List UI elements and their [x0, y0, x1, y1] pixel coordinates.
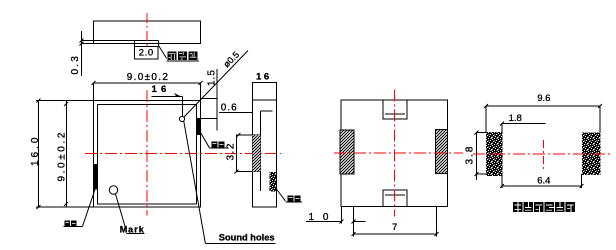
chinese label pad right (2 glyph blocks): [212, 142, 225, 148]
hole center extension line: [201, 118, 218, 120]
dimension 9.0 top extension right: [200, 83, 202, 101]
dimension 0.3 extension line: [81, 43, 94, 45]
hole offset label drop line: [182, 97, 184, 117]
view2 inner square: [98, 105, 197, 205]
dimension 0.3 tick bottom: [80, 42, 84, 46]
leader to view3 pad label: [276, 189, 285, 201]
view3 inner wall line: [260, 111, 262, 191]
view4 bottom square: [341, 100, 448, 207]
view1 package side outline: [94, 21, 201, 44]
dimension 9.0 left line: [66, 101, 68, 208]
view2 red vertical centerline: [146, 90, 148, 216]
view4 bottom notch inner line: [385, 194, 405, 196]
view4 top notch inner line: [385, 113, 405, 115]
hole offset label line: [152, 96, 183, 98]
dimension 6.4 line: [502, 185, 582, 187]
svg-text:9.6: 9.6: [537, 93, 550, 104]
svg-text:0.6: 0.6: [221, 103, 238, 114]
view2 bottom edge extension to left dims: [36, 206, 94, 208]
view3 wall hatch fill: [253, 135, 261, 172]
svg-text:1 6: 1 6: [152, 84, 168, 95]
view4 left hatch pad: [340, 130, 354, 174]
view5 red horizontal centerline: [473, 153, 610, 155]
view1 opening notch right wall: [158, 41, 160, 44]
dimension 9.0 top line: [94, 82, 201, 84]
dimension 9.6 line: [486, 105, 600, 107]
left pad label underline: [64, 226, 83, 228]
dimension 1.0 extension: [341, 207, 343, 224]
view2 right solder pad: [197, 118, 201, 135]
dimension 2.0 extension left: [134, 44, 136, 47]
leader to mark label: [116, 194, 127, 232]
leader diagonal for hole diameter: [184, 51, 248, 118]
dimension 6.4 extension left: [501, 174, 503, 188]
view4 red horizontal centerline: [334, 152, 463, 154]
dimension 0.3 tick top: [80, 39, 84, 43]
dimension 1.5 tick line: [201, 98, 218, 100]
svg-text:0.3: 0.3: [70, 54, 81, 75]
view5 left pad: [486, 132, 503, 176]
svg-text:2.0: 2.0: [139, 48, 154, 59]
svg-text:6.4: 6.4: [537, 176, 550, 187]
dimension 1.0 line right: [354, 221, 366, 223]
dimension 2.0 extension right: [158, 44, 160, 47]
dimension 1.8 extension: [501, 124, 503, 133]
leader to right pad label: [201, 133, 210, 148]
view3 side column outline: [253, 83, 277, 208]
sound holes label underline: [205, 243, 275, 245]
svg-text:7: 7: [392, 222, 397, 233]
view2 left solder pad: [94, 164, 98, 190]
view5 red vertical centerline: [543, 140, 545, 170]
view2 sound hole circle: [179, 116, 184, 121]
view2 top edge extension to left dims: [36, 100, 94, 102]
view3 cap line: [253, 99, 277, 101]
svg-text:9.0±0.2: 9.0±0.2: [57, 130, 68, 182]
view3 bottom pad: [270, 172, 277, 192]
dimension 9.0 top extension left: [93, 83, 95, 101]
view3 pad label underline: [285, 201, 302, 203]
dimension 3.8 tick bottom: [477, 173, 487, 175]
oblique tick marks on dimensions: [37, 81, 603, 236]
chinese label pad left (2 glyph blocks): [65, 221, 77, 227]
dimension 16.0 line: [38, 101, 40, 208]
svg-text:1 0: 1 0: [309, 212, 332, 223]
view1 base plate line: [81, 40, 159, 42]
right pad label underline: [210, 147, 228, 149]
svg-text:1 6: 1 6: [256, 72, 269, 83]
dimension 0.6 leader line: [219, 112, 253, 114]
leader for opening-hole label: [159, 46, 167, 59]
svg-text:3.2: 3.2: [226, 142, 237, 160]
dimension 3.8 line: [476, 133, 478, 181]
leader to sound holes label: [184, 121, 206, 243]
chinese label opening hole (3 glyph blocks): [168, 52, 198, 61]
opening-hole label underline: [167, 60, 199, 62]
view5 right pad: [582, 133, 601, 176]
svg-text:9.0±0.2: 9.0±0.2: [127, 72, 169, 83]
svg-text:3.8: 3.8: [465, 145, 476, 165]
svg-text:16.0: 16.0: [30, 135, 41, 166]
dimension 0.3 line: [81, 31, 83, 76]
dimension 1.8 line: [502, 123, 546, 125]
dimension 2.0 frame box: [135, 47, 159, 60]
dimension 9.6 extension left: [485, 106, 487, 133]
dimension 7 extension right: [436, 207, 438, 237]
svg-text:Mark: Mark: [120, 224, 145, 234]
view4 right hatch pad: [436, 130, 448, 174]
dimension 1.5 vertical line: [216, 69, 218, 131]
dimension 6.4 extension right: [581, 174, 583, 188]
dimension 7 line: [354, 233, 437, 235]
dimension 3.2 extension box: [237, 135, 261, 172]
chinese label pad view3 (2 glyph blocks): [288, 196, 301, 202]
view4 red vertical centerline: [394, 90, 396, 217]
dimension 7 extension left: [353, 207, 355, 237]
view4 top notch: [383, 100, 407, 119]
dimension 9.6 extension right: [599, 106, 601, 133]
mark label underline: [127, 233, 145, 235]
view1 red centerline: [146, 13, 148, 46]
svg-text:Sound holes: Sound holes: [219, 232, 275, 242]
view2 mark circle: [109, 186, 117, 194]
view3 inner top line: [261, 110, 273, 112]
dimension 1.0 line left: [306, 221, 342, 223]
hole offset arrowhead: [174, 93, 182, 97]
dimension 3.8 tick top: [477, 132, 487, 134]
view2 red horizontal centerline: [85, 153, 281, 155]
view2 outer square: [94, 101, 201, 208]
chinese label recommended pad size (6 glyph blocks): [513, 202, 575, 212]
view1 opening notch left wall: [134, 41, 136, 44]
view4 bottom notch: [383, 190, 407, 207]
svg-text:1.8: 1.8: [509, 113, 522, 124]
leader to left pad label: [83, 190, 96, 227]
